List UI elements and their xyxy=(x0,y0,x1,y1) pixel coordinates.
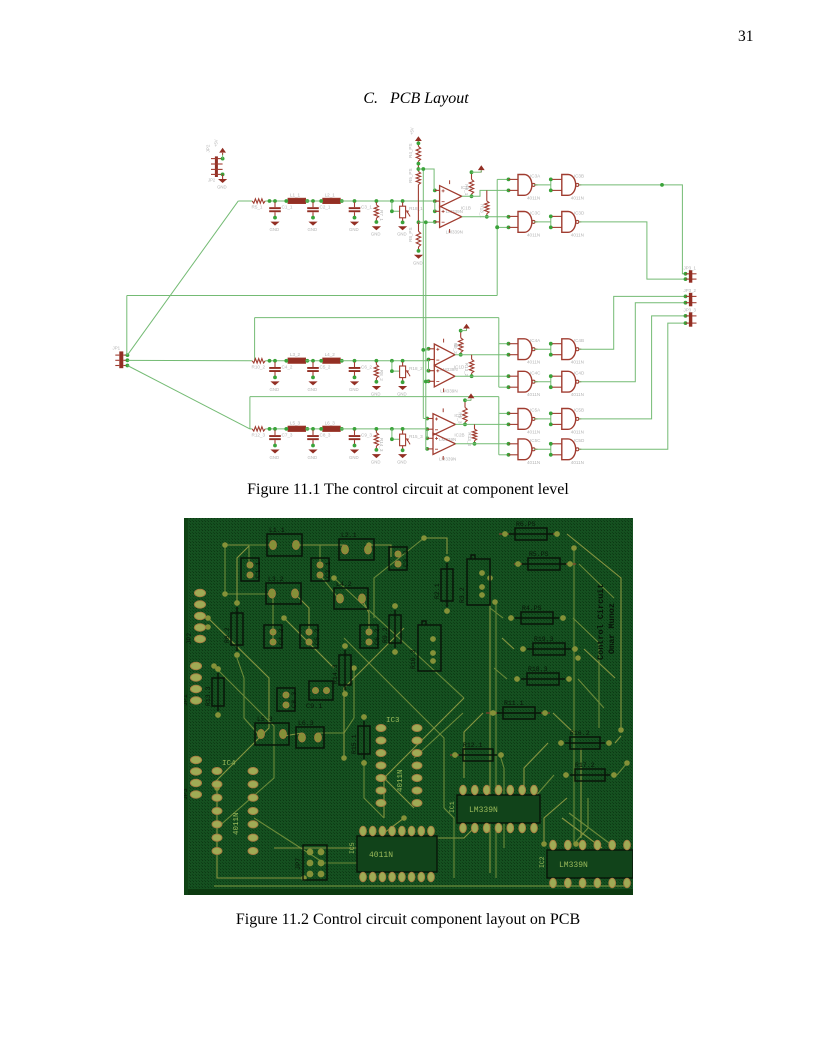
wire reference A vertical bus xyxy=(422,169,424,419)
svg-text:C3.3: C3.3 xyxy=(403,551,411,567)
Figure 11.1: control circuit schematic xyxy=(95,118,735,470)
svg-text:IC3D: IC3D xyxy=(574,211,585,216)
node R9_1 on comparator A output xyxy=(470,194,474,198)
ground xyxy=(308,222,318,233)
capacitor C8.3 footprint xyxy=(277,688,299,711)
svg-text:C9_3: C9_3 xyxy=(361,432,372,437)
nand gate IC5D xyxy=(552,438,585,465)
capacitor C2.1 footprint xyxy=(311,558,333,581)
ground xyxy=(371,454,381,465)
svg-text:C7_3: C7_3 xyxy=(282,432,293,437)
svg-text:4011N: 4011N xyxy=(571,429,584,434)
svg-text:4011N: 4011N xyxy=(369,851,393,860)
svg-text:C9.1: C9.1 xyxy=(306,703,322,711)
inductor L3_2 xyxy=(285,352,308,363)
svg-text:R7_1: R7_1 xyxy=(379,210,384,221)
node reference B xyxy=(417,220,421,224)
resistor R13_3 feedback xyxy=(467,424,477,446)
resistor R16.2 footprint xyxy=(558,730,612,749)
+5V supply arrow channel 1 xyxy=(478,165,485,172)
svg-text:R18.3: R18.3 xyxy=(528,666,548,673)
capacitor C1.1 footprint xyxy=(241,558,263,581)
wire L6_3 to comparator input xyxy=(340,428,427,430)
svg-text:R6.PS: R6.PS xyxy=(516,521,536,528)
node R13_2 on comparator B output xyxy=(470,374,474,378)
node comparator B + input xyxy=(433,209,437,213)
svg-text:R9.2: R9.2 xyxy=(382,627,389,643)
wire comparator A output to gate input xyxy=(455,423,508,425)
capacitor C6_2 xyxy=(349,362,373,379)
trimmer potentiometer R15_3 xyxy=(400,430,423,452)
wire reference A to channel 2 comparator xyxy=(423,349,428,351)
wire reference A to channel 3 comparator xyxy=(423,418,427,420)
svg-text:JP2: JP2 xyxy=(206,144,211,152)
node JP1 pin1 xyxy=(126,353,130,357)
svg-text:LM339N: LM339N xyxy=(446,229,463,234)
svg-text:C8.3: C8.3 xyxy=(291,692,299,708)
svg-text:GND: GND xyxy=(308,227,318,232)
capacitor C1_1 xyxy=(269,202,293,219)
node trimmer top xyxy=(401,199,405,203)
resistor R5.PS footprint xyxy=(515,551,573,570)
svg-text:JP2: JP2 xyxy=(186,633,193,645)
svg-text:R9_1: R9_1 xyxy=(464,184,469,195)
+5V supply arrow at JP4 xyxy=(219,148,226,155)
svg-text:R13_2: R13_2 xyxy=(464,363,469,377)
capacitor C7_3 xyxy=(269,430,293,447)
wire signal to comparator B + input xyxy=(434,201,436,211)
svg-text:C1.1: C1.1 xyxy=(255,562,263,578)
resistor R9_1 pull-up xyxy=(464,172,474,196)
capacitor C3_1 xyxy=(349,202,373,219)
wire JP1 pin3 diagonal to channel 3 input xyxy=(127,366,249,429)
resistor R11.1 footprint xyxy=(490,700,548,719)
svg-text:GND: GND xyxy=(371,392,381,397)
node comparator A - input xyxy=(433,199,437,203)
wire R4_PS to node A xyxy=(417,161,419,171)
wire feedback vertical channel 2 xyxy=(498,318,500,388)
wire comparator A output with jog to gate input xyxy=(462,190,509,196)
nand gate IC4C xyxy=(509,371,542,398)
svg-text:R2.1: R2.1 xyxy=(434,583,441,599)
resistor R10_2 xyxy=(252,359,266,370)
connector JP2 footprint xyxy=(186,589,206,644)
ground xyxy=(349,381,359,392)
IC IC4 4011N footprint xyxy=(212,760,258,855)
inductor L1.1 footprint xyxy=(267,527,302,556)
resistor R18.3 footprint xyxy=(514,666,572,685)
wire R10_2 to L3_2 xyxy=(265,360,288,362)
section title xyxy=(0,90,816,108)
svg-text:4011N: 4011N xyxy=(397,769,405,792)
connector JP7 footprint xyxy=(295,845,327,880)
connector JP4 4-pin power header xyxy=(206,144,223,182)
capacitor C5_2 xyxy=(307,362,331,379)
IC IC5 4011N footprint xyxy=(349,826,437,882)
svg-text:IC5A: IC5A xyxy=(530,408,541,413)
svg-text:4011N: 4011N xyxy=(571,232,584,237)
resistor R12_3 xyxy=(252,427,266,438)
svg-text:L1.1: L1.1 xyxy=(269,527,285,534)
svg-text:R18_1: R18_1 xyxy=(409,206,423,211)
nand gate IC3B xyxy=(552,174,584,201)
wire to gate A input xyxy=(499,412,509,414)
node comparator B - input xyxy=(427,379,431,383)
wire +5V to R4_PS xyxy=(417,141,419,146)
node reference A xyxy=(417,167,421,171)
node trimmer branch xyxy=(390,199,394,203)
ground xyxy=(349,450,359,461)
node JP1 pin3 xyxy=(126,364,130,368)
node junction R5_1 output xyxy=(268,199,272,203)
node aux tap to IC3C xyxy=(495,225,499,229)
svg-text:4011N: 4011N xyxy=(571,392,584,397)
node C4_2 top xyxy=(273,359,277,363)
wire feedback bus channel 2 xyxy=(255,317,499,319)
svg-text:C1_1: C1_1 xyxy=(282,205,293,210)
svg-text:JP2: JP2 xyxy=(208,178,216,183)
svg-text:IC3: IC3 xyxy=(386,717,400,725)
svg-text:IC4D: IC4D xyxy=(574,371,585,376)
connector JP1 3-pin input header xyxy=(113,346,128,369)
node comparator A - input xyxy=(425,427,429,431)
nand gate IC5C xyxy=(509,438,542,465)
svg-text:IC3C: IC3C xyxy=(530,211,541,216)
resistor R15.1 footprint xyxy=(351,714,370,766)
ground at divider xyxy=(413,255,423,265)
wire R12_3 to L5_3 xyxy=(265,428,288,430)
ground xyxy=(371,226,381,237)
resistor R9_2 pull-up xyxy=(453,331,463,355)
connector JP3_1 2-pin header xyxy=(684,265,697,282)
resistor R5_PS xyxy=(408,168,421,184)
svg-text:GND: GND xyxy=(308,387,318,392)
svg-text:GND: GND xyxy=(349,387,359,392)
wire trimmer branch of channel 3 xyxy=(392,429,400,439)
svg-text:L5_3: L5_3 xyxy=(290,420,301,425)
svg-text:R10.3: R10.3 xyxy=(410,649,417,669)
resistor R13.3 footprint xyxy=(205,666,224,718)
wire JP1 pin1 diagonal to channel 1 input xyxy=(127,201,238,355)
svg-text:GND: GND xyxy=(349,455,359,460)
svg-text:+5V: +5V xyxy=(410,127,415,135)
capacitor C9.1 footprint xyxy=(306,681,333,711)
node C7_3 top xyxy=(273,427,277,431)
svg-text:IC4C: IC4C xyxy=(530,371,541,376)
node JP4 pin1 xyxy=(221,157,225,161)
svg-text:IC4: IC4 xyxy=(222,760,236,768)
svg-text:R9_2: R9_2 xyxy=(453,343,458,354)
svg-text:LM339N: LM339N xyxy=(440,389,457,394)
svg-text:R15_3: R15_3 xyxy=(409,434,423,439)
svg-text:4011N: 4011N xyxy=(527,392,540,397)
svg-text:L4.2: L4.2 xyxy=(336,581,352,588)
wire signal to comparator B + input xyxy=(428,360,430,371)
nand gate IC5B xyxy=(552,408,584,435)
wire +5V arrow lead channel 2 xyxy=(466,329,468,331)
capacitor C4_2 xyxy=(269,362,293,379)
svg-text:L1_1: L1_1 xyxy=(290,192,301,197)
wire L4_2 to comparator input xyxy=(340,360,428,362)
svg-text:R8.2: R8.2 xyxy=(224,627,231,643)
svg-text:JP3: JP3 xyxy=(184,788,189,800)
wire channel 3 input to series resistor xyxy=(250,428,252,430)
svg-text:GND: GND xyxy=(217,185,227,190)
wire L1_1 to L2_1 xyxy=(306,200,323,202)
inductor L3.2 footprint xyxy=(266,576,301,604)
svg-text:R3.2: R3.2 xyxy=(459,587,466,603)
svg-text:L6_3: L6_3 xyxy=(325,420,336,425)
svg-text:C2.1: C2.1 xyxy=(325,562,333,578)
svg-text:C2_1: C2_1 xyxy=(320,205,331,210)
svg-text:L6.3: L6.3 xyxy=(298,720,314,727)
wire feedback vertical channel 1 xyxy=(496,179,498,295)
svg-text:GND: GND xyxy=(371,460,381,465)
svg-text:4011N: 4011N xyxy=(571,460,584,465)
svg-text:IC5D: IC5D xyxy=(574,438,585,443)
capacitor C6.2 footprint xyxy=(360,625,382,648)
svg-text:R9_3: R9_3 xyxy=(458,412,463,423)
svg-text:IC3B: IC3B xyxy=(574,174,584,179)
inductor L4_2 xyxy=(320,352,343,363)
svg-text:R13.3: R13.3 xyxy=(205,686,212,706)
wire channel 2 input to series resistor xyxy=(251,360,253,362)
svg-text:GND: GND xyxy=(308,455,318,460)
node trimmer top xyxy=(401,427,405,431)
node JP1 pin2 xyxy=(126,358,130,362)
wire IC5C output to IC5D inputs xyxy=(534,444,553,455)
svg-text:R14_3: R14_3 xyxy=(379,438,384,452)
trace along bottom edge xyxy=(214,885,624,887)
svg-text:Omar Munoz: Omar Munoz xyxy=(607,603,617,654)
svg-text:R17.2: R17.2 xyxy=(575,762,595,769)
resistor R13_1 feedback xyxy=(479,190,489,218)
node comparator A - input xyxy=(427,358,431,362)
resistor R17.2 footprint xyxy=(563,762,617,781)
inductor L1_1 xyxy=(285,192,308,203)
svg-text:L4_2: L4_2 xyxy=(325,352,336,357)
resistor R14_3 xyxy=(374,430,384,452)
svg-text:R5_PS: R5_PS xyxy=(408,168,413,183)
connector JP3_2 2-pin header xyxy=(684,288,697,306)
nand gate IC3A xyxy=(509,174,542,201)
svg-text:IC5B: IC5B xyxy=(574,408,584,413)
svg-text:R15.1: R15.1 xyxy=(351,734,358,754)
resistor R5_1 xyxy=(252,199,266,210)
wire IC3D output to connector JP3_1 pin2 xyxy=(579,222,686,279)
svg-text:4011N: 4011N xyxy=(527,360,540,365)
capacitor C3.3 footprint xyxy=(389,547,411,570)
power pins of comparator xyxy=(449,180,451,184)
wire reference B to comparator xyxy=(419,221,435,223)
wire comparator B output to gate input xyxy=(455,375,509,377)
ground at JP4 xyxy=(217,179,227,190)
wire JP1 pin1 up to feedback bus xyxy=(126,296,128,356)
IC IC3 4011N footprint xyxy=(376,717,422,807)
wire +5V arrow lead channel 3 xyxy=(470,398,472,400)
resistor R2.1 footprint xyxy=(434,556,453,614)
svg-text:R18_2: R18_2 xyxy=(409,366,423,371)
red top layer traces xyxy=(450,534,576,755)
wire IC3B output to connector JP3_1 xyxy=(579,185,686,274)
Figure 11.2: PCB layout xyxy=(184,518,633,895)
trimmer R3.2 footprint xyxy=(459,555,490,605)
svg-text:GND: GND xyxy=(397,392,407,397)
svg-text:4011N: 4011N xyxy=(571,360,584,365)
wire IC5D output to connector xyxy=(579,323,686,449)
inductor L5_3 xyxy=(285,420,308,431)
capacitor C5.2 footprint xyxy=(300,625,322,648)
node trimmer branch xyxy=(390,359,394,363)
node comparator B + input xyxy=(425,436,429,440)
node R14_3 top xyxy=(375,427,379,431)
ground xyxy=(397,454,407,465)
caption figure 11.2 xyxy=(0,911,816,929)
svg-text:LM339N: LM339N xyxy=(559,861,588,870)
inductor L2.1 footprint xyxy=(339,532,374,560)
wire JP4 pin1 to +5V xyxy=(222,153,224,158)
svg-text:L3.2: L3.2 xyxy=(268,576,284,583)
ground xyxy=(308,381,318,392)
wire reference B to channel 3 comparator xyxy=(426,448,427,450)
svg-text:IC1: IC1 xyxy=(449,801,456,813)
svg-text:R4_PS: R4_PS xyxy=(408,143,413,158)
wire bus drop to channel 2 input node xyxy=(254,318,256,361)
resistor R4_PS xyxy=(408,143,421,161)
svg-text:R12_3: R12_3 xyxy=(252,432,266,437)
svg-text:IC2B: IC2B xyxy=(454,432,464,437)
svg-text:LM339N: LM339N xyxy=(439,456,456,461)
trimmer R10.3 footprint xyxy=(410,621,441,671)
wire to +5V xyxy=(465,399,471,401)
wire comparator B output to gate input xyxy=(455,443,508,445)
node R8_PS bottom xyxy=(417,249,421,253)
wire L2_1 to comparator input xyxy=(340,200,434,202)
svg-text:4011N: 4011N xyxy=(571,195,584,200)
wire R5_1 to L1_1 xyxy=(265,200,288,202)
node R9_2 on comparator A output xyxy=(459,353,463,357)
wire +5V arrow lead channel 1 xyxy=(480,170,482,172)
wire IC4A output to IC4B inputs xyxy=(534,344,553,355)
inductor L4.2 footprint xyxy=(334,581,368,609)
svg-text:4011N: 4011N xyxy=(527,460,540,465)
ground xyxy=(397,386,407,397)
svg-text:GND: GND xyxy=(349,227,359,232)
power pins of comparator xyxy=(442,408,444,412)
svg-text:C5.2: C5.2 xyxy=(314,629,322,645)
capacitor C9_3 xyxy=(349,430,373,447)
op-amp comparator IC1D xyxy=(434,365,465,394)
svg-text:C5_2: C5_2 xyxy=(320,364,331,369)
svg-text:R13_1: R13_1 xyxy=(479,204,484,218)
svg-text:R19.3: R19.3 xyxy=(534,636,554,643)
svg-text:IC4A: IC4A xyxy=(530,338,541,343)
resistor R8_2 xyxy=(374,362,384,384)
svg-text:IC3A: IC3A xyxy=(530,174,541,179)
node R9_3 on comparator A output xyxy=(463,423,467,427)
caption figure 11.1 xyxy=(0,481,816,499)
wire IC4C output to IC4D inputs xyxy=(534,376,553,387)
svg-text:4011N: 4011N xyxy=(527,232,540,237)
svg-text:Control Circuit: Control Circuit xyxy=(596,583,606,660)
wire JP1 pin2 to channel 2 input xyxy=(127,359,252,361)
node comparator B - input xyxy=(425,447,429,451)
copper traces xyxy=(208,534,627,878)
svg-text:R4.PS: R4.PS xyxy=(522,605,542,612)
svg-text:JP1: JP1 xyxy=(113,346,121,351)
svg-text:L2_1: L2_1 xyxy=(325,192,336,197)
svg-text:R5.PS: R5.PS xyxy=(529,551,549,558)
svg-text:C6_2: C6_2 xyxy=(361,364,372,369)
wire signal to comparator B + input xyxy=(426,429,428,438)
wire to gate C input xyxy=(499,454,509,456)
resistor R14.3 footprint xyxy=(332,643,351,697)
node R7_1 top xyxy=(375,199,379,203)
trimmer potentiometer R18_2 xyxy=(400,362,423,384)
inductor L6_3 xyxy=(320,420,343,431)
nand gate IC4A xyxy=(509,338,542,365)
+5V supply arrow channel 2 xyxy=(463,324,470,331)
inductor L5.3 footprint xyxy=(255,716,289,745)
node R13_1 on comparator B output xyxy=(485,215,489,219)
op-amp comparator IC1B xyxy=(440,205,471,234)
op-amp comparator IC1A xyxy=(440,185,472,214)
svg-text:GND: GND xyxy=(371,232,381,237)
PCB board background xyxy=(184,518,633,895)
nand gate IC5A xyxy=(509,408,542,435)
node trimmer branch xyxy=(390,427,394,431)
svg-text:R8_2: R8_2 xyxy=(379,370,384,381)
wire to gate A input xyxy=(497,178,508,180)
wire comparator B output to gate input xyxy=(462,216,509,218)
resistor R12.1 footprint xyxy=(452,742,504,761)
node junction R10_2 output xyxy=(268,359,272,363)
svg-text:L5.3: L5.3 xyxy=(257,716,273,723)
svg-text:IC5C: IC5C xyxy=(530,438,541,443)
svg-text:C8_3: C8_3 xyxy=(320,432,331,437)
svg-text:IC2: IC2 xyxy=(539,856,546,868)
svg-text:+5V: +5V xyxy=(214,139,219,147)
svg-text:R5_1: R5_1 xyxy=(252,205,263,210)
svg-text:IC1D: IC1D xyxy=(454,365,465,370)
resistor R19.3 footprint xyxy=(520,636,578,655)
svg-text:C3_1: C3_1 xyxy=(361,205,372,210)
op-amp comparator IC2A xyxy=(433,413,466,442)
svg-text:R10_2: R10_2 xyxy=(252,364,266,369)
svg-text:R11.1: R11.1 xyxy=(504,700,524,707)
node C5_2 top xyxy=(311,359,315,363)
wire feedback bus channel 1 xyxy=(127,295,497,297)
svg-text:JP3_1: JP3_1 xyxy=(684,265,697,270)
svg-text:L3_2: L3_2 xyxy=(290,352,301,357)
ground xyxy=(397,226,407,237)
wire to gate A input xyxy=(499,343,509,345)
svg-text:C4_2: C4_2 xyxy=(282,364,293,369)
wire L3_2 to L4_2 xyxy=(306,360,323,362)
svg-text:R16.2: R16.2 xyxy=(570,730,590,737)
node comparator B - input xyxy=(433,220,437,224)
node C2_1 top xyxy=(311,199,315,203)
connector JP3 footprint xyxy=(182,756,202,800)
svg-text:GND: GND xyxy=(413,260,423,265)
svg-text:IC4B: IC4B xyxy=(574,338,584,343)
resistor R8.2 footprint xyxy=(224,600,243,658)
capacitor C2_1 xyxy=(307,202,331,219)
wire feedback vertical channel 3 xyxy=(498,397,500,455)
wire L5_3 to L6_3 xyxy=(306,428,323,430)
op-amp comparator IC2B xyxy=(433,432,465,461)
ground xyxy=(349,222,359,233)
